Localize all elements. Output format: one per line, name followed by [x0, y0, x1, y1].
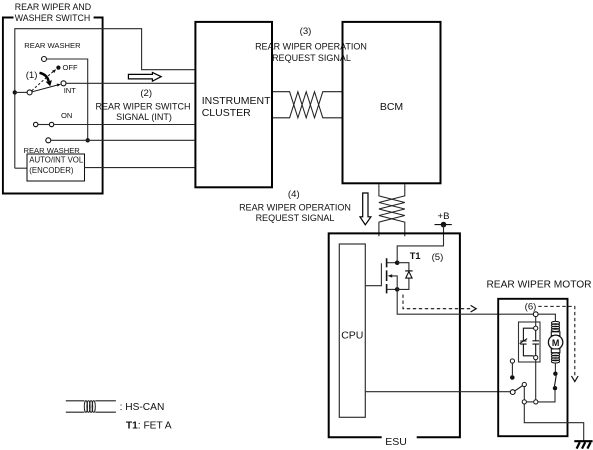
- svg-text:AUTO/INT VOL: AUTO/INT VOL: [29, 156, 84, 165]
- svg-text:REQUEST SIGNAL: REQUEST SIGNAL: [256, 213, 335, 223]
- node washer junction: [86, 138, 90, 142]
- motor armature coil top: [551, 321, 559, 331]
- breaker left branch: [520, 328, 534, 356]
- label (4) request signal: [239, 189, 351, 223]
- transistor T1 channel: [386, 258, 388, 293]
- legend HS-CAN symbol: [66, 401, 116, 412]
- park contact closed: [553, 372, 557, 376]
- svg-text:REAR WIPER SWITCH: REAR WIPER SWITCH: [95, 102, 190, 112]
- T1 body arrow: [388, 274, 393, 277]
- svg-text:INT: INT: [64, 86, 77, 95]
- HS-CAN twisted pair BCM-ESU: [379, 184, 405, 236]
- motor armature coil bottom: [551, 353, 559, 363]
- switch common contact: [27, 90, 32, 95]
- T1 drain stub: [387, 262, 398, 264]
- dashed flow arrow (6) down: [538, 306, 575, 376]
- wire to common contact: [15, 91, 27, 93]
- svg-text:INSTRUMENT: INSTRUMENT: [202, 95, 271, 107]
- svg-text:T1: FET A: T1: FET A: [126, 421, 172, 432]
- OFF contact: [56, 66, 60, 70]
- body diode: [397, 263, 409, 290]
- rotation arrow (1): [40, 73, 49, 81]
- switch arm dashed to OFF: [32, 71, 54, 91]
- svg-text:REAR WIPER OPERATION: REAR WIPER OPERATION: [239, 203, 351, 213]
- svg-text:CLUSTER: CLUSTER: [202, 107, 251, 119]
- svg-text:REAR WIPER MOTOR: REAR WIPER MOTOR: [486, 279, 591, 290]
- signal arrow (2): [128, 72, 161, 81]
- wire capacitor block to row: [535, 360, 537, 400]
- wire +B to FET drain: [397, 225, 443, 261]
- T1 source stub: [387, 288, 398, 290]
- BCM U: [343, 22, 441, 183]
- svg-text:: HS-CAN: : HS-CAN: [120, 402, 165, 413]
- ESU box: [329, 233, 460, 437]
- svg-text:SIGNAL (INT): SIGNAL (INT): [116, 112, 172, 122]
- svg-text:WASHER SWITCH: WASHER SWITCH: [15, 13, 90, 23]
- wire rail to encoder: [15, 167, 27, 169]
- wire encoder to cluster: [84, 167, 194, 169]
- wire CPU to park switch: [365, 391, 510, 393]
- svg-text:REAR WIPER AND: REAR WIPER AND: [15, 2, 91, 12]
- rear washer bottom contact: [46, 138, 51, 143]
- wire FET source to motor: [397, 289, 533, 314]
- switch arm solid to INT: [32, 85, 57, 92]
- wire motor to park contact: [554, 363, 556, 372]
- ON contacts: [34, 122, 38, 126]
- dashed flow arrow to motor: [403, 295, 471, 309]
- svg-text:CPU: CPU: [341, 330, 363, 342]
- stop contact: [510, 359, 514, 363]
- switch box title: [15, 2, 91, 23]
- svg-text:REAR WASHER: REAR WASHER: [24, 41, 81, 50]
- svg-text:REAR WIPER OPERATION: REAR WIPER OPERATION: [255, 41, 367, 51]
- park switch arm: [510, 390, 515, 395]
- svg-text:+B: +B: [437, 211, 449, 222]
- brush top: [551, 332, 560, 336]
- rear wiper motor box: [498, 299, 567, 436]
- motor M: [548, 335, 562, 349]
- svg-text:(1): (1): [26, 70, 38, 81]
- svg-text:(5): (5): [432, 252, 444, 263]
- ground: [574, 440, 592, 442]
- svg-text:ON: ON: [61, 111, 72, 120]
- CPU box: [339, 244, 365, 417]
- svg-text:ESU: ESU: [385, 436, 407, 448]
- wire washer top: [47, 59, 88, 140]
- HS-CAN twisted pair cluster-BCM: [273, 92, 342, 118]
- row terminals: [534, 400, 538, 404]
- brush bottom: [551, 349, 560, 353]
- wire park contact to row: [538, 390, 555, 402]
- wire INT to cluster: [66, 82, 194, 84]
- wire washer to cluster: [51, 139, 195, 141]
- motor terminal: [533, 312, 538, 317]
- svg-text:T1: T1: [410, 251, 421, 261]
- svg-text:(2): (2): [140, 88, 152, 99]
- wire common rail: [15, 29, 195, 169]
- wire to ground: [524, 404, 583, 440]
- wire terminal to motor branch: [538, 314, 555, 321]
- svg-text:(6): (6): [525, 301, 537, 312]
- rear wiper and washer switch box: [3, 18, 103, 194]
- wire ON to cluster: [54, 124, 195, 126]
- signal arrow (4) down: [360, 193, 371, 225]
- svg-text:BCM: BCM: [380, 101, 403, 113]
- instrument cluster U: [195, 22, 272, 187]
- label (3) request signal: [255, 26, 367, 63]
- svg-text:(3): (3): [300, 26, 312, 37]
- capacitor block: [519, 322, 541, 362]
- svg-text:(4): (4): [288, 189, 300, 200]
- capacitor C right branch: [532, 330, 539, 355]
- svg-text:(ENCODER): (ENCODER): [29, 166, 74, 175]
- node rail junction: [13, 90, 17, 94]
- encoder box AUTO/INT VOL: [27, 154, 85, 181]
- svg-text:REQUEST SIGNAL: REQUEST SIGNAL: [272, 53, 351, 63]
- svg-text:M: M: [552, 338, 560, 348]
- svg-text:OFF: OFF: [63, 63, 79, 72]
- wire terminal to capacitor block: [535, 317, 537, 327]
- rear washer top contact: [42, 57, 47, 62]
- INT contact: [61, 81, 66, 86]
- wire CPU to gate: [365, 263, 381, 285]
